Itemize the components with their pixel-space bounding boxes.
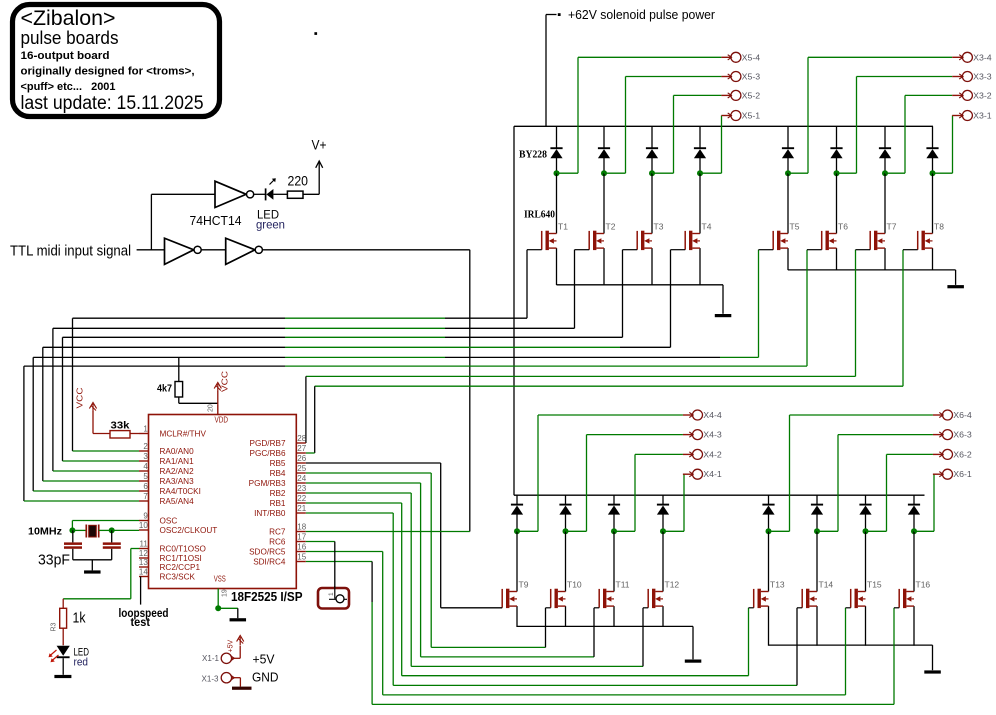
wire T4 source [699,248,701,285]
pin 16 SDO/RC5 [296,551,306,553]
connector pin X4-1 [683,473,693,475]
wire T6 gate to RA5 pin7 [806,250,808,366]
svg-text:1: 1 [328,592,335,596]
wire junction to T5 drain [787,173,789,233]
svg-text:18: 18 [297,523,306,532]
wire diode D15 to node [865,514,867,531]
wire T5 gate to RA4 pin6 [758,250,760,358]
pin 10 OSC2/CLKOUT [139,529,149,531]
wire T3 gate to RA1 pin3 [622,250,624,338]
wire T5 gate stub [759,249,774,251]
wire T12 gate stub [643,607,648,609]
pin 20 VDD [217,405,219,415]
title block frame [13,5,220,117]
wire T1 gate to RA0 pin2 [526,250,528,319]
supply VCC arrow right [217,384,219,392]
wire T5 junction to X3-4 [788,172,808,174]
supply VCC arrow left [92,404,94,412]
transistor T4 IRL640 [685,231,700,250]
junction dot stray point [314,32,317,35]
transistor T10 IRL640 [551,589,566,608]
wire diode D13 to node [768,514,770,531]
transistor T1 IRL640 [542,231,557,250]
svg-text:13: 13 [139,558,148,567]
svg-text:X1-3: X1-3 [202,674,219,684]
wire diode D9 to node [516,514,518,531]
svg-text:MCLR#/THV: MCLR#/THV [160,430,207,439]
wire junction to T13 drain [768,531,770,591]
wire T15 gate stub [846,607,851,609]
svg-text:VSS: VSS [214,575,226,584]
wire T2 gate stub [575,249,590,251]
node T14 drain junction [814,528,820,534]
wire junction to T4 drain [699,173,701,233]
wire T8 source [932,248,934,270]
wire T10 gate to RB4 pin25 [306,472,431,474]
transistor T12 IRL640 [648,589,663,608]
svg-text:VCC: VCC [220,371,229,392]
wire T4 gate stub [671,249,686,251]
svg-text:INT/RB0: INT/RB0 [254,509,286,518]
svg-text:9: 9 [143,512,148,521]
ground X1-3 [232,687,252,690]
wire junction to T8 drain [932,173,934,233]
svg-text:X6-3: X6-3 [953,431,972,440]
svg-text:X3-2: X3-2 [973,91,992,100]
wire source bus T9-T12 [517,625,693,627]
wire T13 gate stub [749,607,754,609]
svg-text:10: 10 [139,521,148,530]
wire junction to T1 drain [556,173,558,233]
connector pin X5-1 [721,115,731,117]
diode D15 [859,504,871,506]
pin 9 OSC [139,520,149,522]
diode D1 BY228 [550,147,562,149]
svg-text:20: 20 [208,404,215,412]
svg-text:T1: T1 [558,222,568,232]
svg-text:T12: T12 [665,580,680,590]
wire bus to diode D13 [768,495,770,504]
node T9 drain junction [514,528,520,534]
wire T1 junction to X5-4 [557,172,579,174]
svg-text:X6-4: X6-4 [953,411,972,420]
wire junction to T11 drain [613,531,615,591]
svg-text:SDI/RC4: SDI/RC4 [253,558,286,567]
LED D1 green [265,188,267,200]
node T12 drain junction [660,528,666,534]
svg-text:RA0/AN0: RA0/AN0 [160,447,195,456]
wire bus to diode D8 [932,126,934,148]
diode D7 [879,147,891,149]
svg-text:T3: T3 [654,222,664,232]
ground LED red [54,675,71,678]
connector pin X6-4 [933,414,943,416]
wire VSS to ground [218,607,238,609]
node crystal left [69,527,75,533]
svg-text:25: 25 [297,464,306,473]
pin 21 INT/RB0 [296,512,306,514]
node crystal right [109,527,115,533]
wire T13 source [768,606,770,646]
resistor R3 1k [60,608,67,628]
wire VCC to 33k [92,412,94,434]
diode D8 [926,147,938,149]
connector pin X3-3 [952,76,962,78]
svg-text:X5-2: X5-2 [742,91,761,100]
wire T14 junction to X6-3 [817,530,838,532]
svg-text:3: 3 [143,452,148,461]
svg-text:RB2: RB2 [270,489,286,498]
wire bus to diode D2 [603,126,605,148]
diode D11 [608,504,620,506]
wire T11 gate to RB3 pin24 [306,482,421,484]
connector pin X6-2 [933,453,943,455]
junction dot +62V [558,13,561,16]
connector pin X6-3 [933,434,943,436]
node T2 drain junction [601,170,607,176]
transistor T11 IRL640 [599,589,614,608]
wire T14 gate to RB0 pin21 [306,512,393,514]
svg-text:17: 17 [297,533,306,542]
wire T8 gate to PGC pin27 [902,250,904,387]
svg-text:X1-1: X1-1 [202,653,219,663]
svg-text:6: 6 [143,482,148,491]
wire junction to T6 drain [836,173,838,233]
svg-text:X5-4: X5-4 [742,53,761,62]
node VSS junction [215,605,221,611]
wire T11 junction to X4-2 [614,530,635,532]
svg-text:T5: T5 [790,222,800,232]
ground source bus T5-T8 [947,285,964,288]
svg-text:T10: T10 [567,580,582,590]
svg-text:1k: 1k [73,610,86,627]
wire RC7 pin18 to midi net [306,531,470,533]
wire T10 gate stub [546,607,551,609]
pin 4 RA2/AN2 [139,470,149,472]
svg-text:+62V solenoid pulse power: +62V solenoid pulse power [568,8,715,22]
LED D17 red [57,646,70,656]
svg-text:2: 2 [143,442,148,451]
wire T16 gate to RC4 pin15 [306,561,372,563]
svg-text:OSC2/CLKOUT: OSC2/CLKOUT [160,526,218,535]
supply V+ arrow [318,162,320,195]
wire LED to ground [62,658,64,675]
connector pin X3-4 [952,56,962,58]
diode D10 [559,504,571,506]
wire T13 junction to X6-4 [769,530,790,532]
svg-text:16-output board: 16-output board [21,50,110,62]
svg-text:T9: T9 [519,580,529,590]
connector pin X3-1 [952,115,962,117]
wire branch to top inverter [150,194,152,250]
pin 18 RC7 [296,531,306,533]
svg-text:RA2/AN2: RA2/AN2 [160,467,195,476]
ground source bus T13-T16 [924,670,941,673]
svg-text:VCC: VCC [76,387,85,408]
wire junction to T9 drain [516,531,518,591]
wire T12 gate to RB2 pin23 [306,492,411,494]
transistor T3 IRL640 [637,231,652,250]
resistor R2 33k [110,431,130,438]
ground crystal [91,560,93,571]
wire bus to diode D10 [565,495,567,504]
connector pin X5-3 [721,76,731,78]
wire diode D2 to node [603,158,605,174]
wire T16 source [913,606,915,646]
wire diode D14 to node [816,514,818,531]
wire LED to resistor [273,193,287,195]
node T1 drain junction [554,170,560,176]
pin 23 RB2 [296,492,306,494]
svg-text:24: 24 [297,474,306,483]
connector pin X4-3 [683,434,693,436]
capacitor C1 33pF [72,530,74,542]
wire T7 gate stub [856,249,871,251]
wire T11 source [613,606,615,627]
svg-text:T16: T16 [916,580,931,590]
pin 12 RC1/T1OSI [139,557,149,559]
diode D3 [646,147,658,149]
wire T6 junction to X3-3 [837,172,857,174]
wire bus to diode D5 [787,126,789,148]
diode D2 [598,147,610,149]
svg-text:RB1: RB1 [270,499,286,508]
wire diode D8 to node [932,158,934,174]
wire T2 junction to X5-3 [604,172,626,174]
svg-text:VDD: VDD [215,416,229,425]
connector pin X4-2 [683,453,693,455]
pin 15 SDI/RC4 [296,561,306,563]
pin 19 VSS [217,589,219,609]
wire T10 junction to X4-3 [566,530,587,532]
diode D16 [908,504,920,506]
diode D6 [830,147,842,149]
wire midi input [137,249,165,251]
svg-text:RA3/AN3: RA3/AN3 [160,477,195,486]
diode D4 [694,147,706,149]
wire +62V top bus [514,125,933,127]
wire diode D16 to node [913,514,915,531]
connector pin X5-4 [721,56,731,58]
jumper SJ1 [318,588,349,609]
svg-text:14: 14 [139,568,148,577]
wire bus to diode D15 [865,495,867,504]
pin 27 PGC/RB6 [296,452,306,454]
node T7 drain junction [882,170,888,176]
svg-text:RB4: RB4 [270,469,286,478]
wire junction to T2 drain [603,173,605,233]
wire 1k to LED [62,628,64,645]
diode D14 [811,504,823,506]
svg-text:+5V: +5V [228,640,235,653]
wire junction to T10 drain [565,531,567,591]
wire T3 gate stub [623,249,638,251]
wire RC0 pin11 to 1k [131,548,139,550]
svg-text:12: 12 [139,549,148,558]
svg-text:RC6: RC6 [269,538,286,547]
wire T9 gate to RB5 pin26 [306,462,441,464]
svg-text:RC3/SCK: RC3/SCK [160,573,196,582]
wire bus to diode D4 [699,126,701,148]
pin 28 PGD/RB7 [296,442,306,444]
svg-text:5: 5 [143,472,148,481]
pin 11 RC0/T1OSO [139,548,149,550]
IC U2 18F2525 body [149,415,297,589]
wire 33k to MCLR pin1 [130,433,139,435]
ground VSS [237,608,239,618]
svg-text:X5-3: X5-3 [742,73,761,82]
wire junction to T3 drain [651,173,653,233]
pin 24 PGM/RB3 [296,482,306,484]
node T5 drain junction [785,170,791,176]
svg-text:RC1/T1OSI: RC1/T1OSI [160,554,202,563]
svg-text:4k7: 4k7 [157,383,172,395]
svg-text:green: green [256,218,285,232]
svg-text:<puff> etc... 2001: <puff> etc... 2001 [21,81,116,93]
svg-text:X5-1: X5-1 [742,112,761,121]
pin 17 RC6 [296,541,306,543]
svg-text:V+: V+ [312,138,327,153]
svg-text:T6: T6 [838,222,848,232]
svg-text:RC2/CCP1: RC2/CCP1 [160,563,201,572]
pin 25 RB4 [296,472,306,474]
wire T3 source [651,248,653,285]
wire T7 gate to PGD pin28 [855,250,857,377]
wire T15 junction to X6-2 [866,530,887,532]
wire U1B to U1C [201,249,226,251]
resistor R1 220 [287,191,303,198]
wire T8 gate stub [903,249,918,251]
wire diode D1 to node [556,158,558,174]
pin 3 RA1/AN1 [139,460,149,462]
wire T6 gate stub [807,249,822,251]
wire T12 junction to X4-1 [663,530,684,532]
wire junction to T15 drain [865,531,867,591]
wire inverter to LED [254,193,266,195]
wire resistor to V+ [303,193,319,195]
svg-text:test: test [131,615,151,629]
svg-text:RC0/T1OSO: RC0/T1OSO [160,545,206,554]
node T8 drain junction [930,170,936,176]
svg-text:originally designed for <troms: originally designed for <troms>, [21,66,195,78]
transistor T13 IRL640 [754,589,769,608]
connector pin X6-1 [933,473,943,475]
node T3 drain junction [649,170,655,176]
svg-text:X4-1: X4-1 [703,470,722,479]
ground source bus T9-T12 [685,660,702,663]
wire bus to diode D3 [651,126,653,148]
svg-text:red: red [74,656,89,668]
pin 7 RA5/AN4 [139,500,149,502]
svg-text:T2: T2 [606,222,616,232]
node T4 drain junction [697,170,703,176]
svg-text:T13: T13 [770,580,785,590]
svg-text:SDO/RC5: SDO/RC5 [249,548,286,557]
svg-text:IRL640: IRL640 [524,210,555,221]
transistor T8 IRL640 [918,231,933,250]
supply +5V arrow [239,637,241,645]
wire junction to T16 drain [913,531,915,591]
svg-text:RB5: RB5 [270,459,286,468]
wire OSC2 pin10 to crystal [112,529,139,531]
svg-text:PGM/RB3: PGM/RB3 [249,479,286,488]
transistor T15 IRL640 [851,589,866,608]
transistor T6 IRL640 [822,231,837,250]
svg-text:T14: T14 [819,580,834,590]
pin 22 RB1 [296,502,306,504]
connector pin X4-4 [683,414,693,416]
wire OSC pin9 to crystal [72,520,139,522]
svg-text:X6-1: X6-1 [953,470,972,479]
wire T13 gate to RB1 pin22 [306,502,402,504]
wire +62V feed vertical [545,15,547,127]
svg-text:GND: GND [252,670,279,685]
svg-text:33k: 33k [111,420,130,432]
wire +62V left wall vertical [513,126,515,495]
connector pin X3-2 [952,94,962,96]
wire source bus T13-T16 [769,644,933,646]
wire X1-3 to ground [232,677,241,679]
wire T1 source [556,248,558,285]
svg-text:BY228: BY228 [519,150,547,161]
diode D12 [657,504,669,506]
op-amp U1A inverter 74HCT14 [215,181,246,207]
transistor T7 IRL640 [870,231,885,250]
wire diode D5 to node [787,158,789,174]
wire T9 junction to X4-4 [517,530,538,532]
wire junction to T14 drain [816,531,818,591]
node T15 drain junction [863,528,869,534]
transistor T9 IRL640 [502,589,517,608]
svg-text:21: 21 [297,504,306,513]
transistor T5 IRL640 [773,231,788,250]
wire RC3 pin14 loopspeed test [140,577,142,605]
wire T4 junction to X5-1 [700,172,722,174]
pin 14 RC3/SCK [139,576,149,578]
svg-text:RA4/T0CKI: RA4/T0CKI [160,487,201,496]
op-amp U1C inverter [226,238,255,264]
svg-text:T4: T4 [702,222,712,232]
svg-text:OSC: OSC [160,517,178,526]
svg-text:22: 22 [297,494,306,503]
svg-text:X4-4: X4-4 [703,411,722,420]
node T13 drain junction [766,528,772,534]
node T10 drain junction [563,528,569,534]
wire VCC to VDD pin20 [217,392,219,406]
op-amp U1B inverter [165,238,194,264]
svg-text:33pF: 33pF [38,553,70,569]
pin 1 MCLR#/THV [139,433,149,435]
wire T8 junction to X3-1 [933,172,953,174]
svg-text:X4-3: X4-3 [703,431,722,440]
wire diode D4 to node [699,158,701,174]
wire T5 source [787,248,789,270]
wire T11 gate stub [594,607,599,609]
svg-text:last update: 15.11.2025: last update: 15.11.2025 [21,93,204,114]
wire T1 gate stub [527,249,542,251]
wire bus to diode D6 [836,126,838,148]
wire RC6 pin17 to jumper [306,541,335,543]
wire capacitors to ground [73,559,112,561]
svg-text:10MHz: 10MHz [28,526,62,538]
svg-text:RA5/AN4: RA5/AN4 [160,497,195,506]
svg-text:PGC/RB6: PGC/RB6 [250,449,286,458]
wire T16 junction to X6-1 [914,530,934,532]
svg-text:+5V: +5V [253,651,275,666]
wire diode D7 to node [884,158,886,174]
svg-text:7: 7 [143,492,148,501]
svg-text:T8: T8 [934,222,944,232]
